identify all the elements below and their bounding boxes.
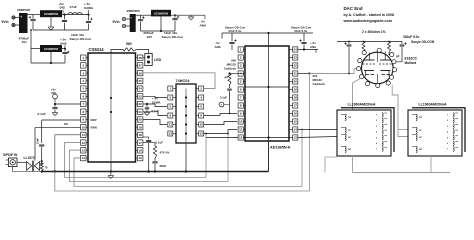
svg-text:E182CC: E182CC [405, 57, 418, 61]
svg-text:LED: LED [154, 58, 162, 62]
svg-text:10: 10 [200, 123, 204, 127]
wire 9V input to bridge [15, 17, 19, 19]
svg-text:0.1uF: 0.1uF [156, 141, 164, 145]
wire regulator ANA output [62, 48, 65, 50]
svg-text:2SBP005: 2SBP005 [17, 8, 31, 12]
wire filter chain upper [148, 137, 150, 139]
AD1865 pin 10 [238, 119, 243, 124]
wire gray cathode rail long vertical [309, 74, 311, 192]
CS8414 pin 3 [81, 70, 86, 75]
transformer T2 secondary windings [453, 113, 454, 118]
tube pin g [389, 75, 393, 79]
wire regulator output rail +5v DIG [62, 14, 89, 16]
wire T1 bottom to gray rail [352, 156, 354, 173]
capacitor C2 10uF [64, 15, 66, 20]
svg-text:14: 14 [294, 128, 298, 132]
wire resistor 470 branch [143, 142, 155, 144]
tube pin 9 [393, 68, 397, 72]
svg-text:0.1uF: 0.1uF [220, 96, 227, 100]
resistor R2 560 [123, 48, 137, 51]
svg-text:ANA: ANA [60, 42, 67, 46]
wire regulator ANA input [31, 48, 40, 50]
CS8414 pin 23 [138, 94, 143, 99]
CS8414 pin 4 [81, 78, 86, 83]
svg-text:ANA: ANA [215, 45, 222, 49]
svg-text:16V: 16V [147, 35, 153, 39]
CS8414 pin 25 [138, 78, 143, 83]
svg-text:16: 16 [294, 112, 298, 116]
wire PSU1 ground bus [33, 29, 89, 31]
svg-text:Caddock: Caddock [224, 67, 237, 71]
74HC04 pin 12 [199, 131, 204, 136]
IC U6 74HC04 body [176, 84, 196, 143]
svg-text:by A. Ciuffoli - started in 2: by A. Ciuffoli - started in 2008 [344, 13, 394, 17]
regulator U4 LD1085V50 negative [151, 10, 171, 17]
AD1865 pin 18 [293, 95, 298, 100]
svg-text:LD1085V50: LD1085V50 [44, 47, 59, 51]
CS8414 pin 27 [138, 63, 143, 68]
svg-text:19: 19 [294, 88, 298, 92]
svg-text:LD1085V50: LD1085V50 [44, 12, 59, 16]
wire B+ rail [337, 41, 402, 43]
transformer T1 body [337, 110, 391, 156]
wire CS8414 internal to ground bus [110, 162, 112, 172]
tube pin 1 [358, 59, 362, 63]
svg-text:13: 13 [82, 149, 86, 153]
AD1865 pin 14 [293, 127, 298, 132]
wire pin14 to transformer T1 [298, 129, 337, 131]
IC U7 AD1865N-K body [245, 46, 289, 141]
AD1865 pin 15 [293, 119, 298, 124]
node +5v DIG [63, 13, 65, 15]
CS8414 pin 8 [81, 109, 86, 114]
svg-text:LL1572: LL1572 [24, 156, 35, 160]
input terminal J1a [12, 16, 15, 19]
wire latch net to pin13 [206, 137, 290, 139]
ground PSU2 [190, 15, 192, 17]
wire pin14 route [74, 158, 302, 187]
wire pin13 route [69, 150, 228, 181]
svg-text:21: 21 [139, 110, 143, 114]
capacitor C8 coupling [39, 144, 44, 146]
74HC04 pin 1 [168, 86, 173, 91]
capacitor C13 47uF left [231, 33, 233, 41]
svg-text:Sanyo OS-Con: Sanyo OS-Con [70, 37, 92, 41]
AD1865 pin 5 [238, 79, 243, 84]
wire connector ground to bus [13, 167, 42, 172]
svg-text:14: 14 [82, 156, 86, 160]
AD1865 pin 20 [293, 79, 298, 84]
tube pin 3 [357, 67, 361, 71]
AD1865 pin 21 [293, 71, 298, 76]
wire ground return loop [55, 172, 310, 192]
AD1865 pin 2 [238, 55, 243, 60]
svg-text:filt: filt [64, 122, 68, 126]
svg-text:SAWA: SAWA [84, 6, 94, 10]
svg-text:LD1085V50: LD1085V50 [154, 12, 169, 16]
node SAWA decoupling [146, 103, 148, 105]
ground PSU1 [48, 26, 54, 28]
74HC04 pin 4 [199, 95, 204, 100]
AD1865 pin 8 [238, 103, 243, 108]
wire pin22 to 74HC04 [143, 104, 167, 107]
CS8414 pin 15 [138, 155, 143, 160]
svg-text:17: 17 [294, 104, 298, 108]
wire AD1865 pin24 supply [298, 49, 318, 51]
wire pin21 to 74HC04 [143, 112, 167, 116]
svg-text:28: 28 [139, 56, 143, 60]
74HC04 pin 6 [199, 104, 204, 109]
svg-text:2SBP005: 2SBP005 [127, 9, 141, 13]
svg-text:10: 10 [82, 125, 86, 129]
wire pin11 route to ground bus [55, 135, 81, 172]
transformer T2 primary windings [416, 114, 417, 121]
tube pin h [376, 83, 380, 87]
AD1865 pin 11 [238, 127, 243, 132]
tube pin k [386, 81, 390, 85]
wire T2 bottom to gray rail [430, 156, 432, 173]
svg-text:CS8414: CS8414 [89, 47, 105, 52]
svg-text:24: 24 [294, 48, 298, 52]
svg-text:LL1660AM/20mA: LL1660AM/20mA [348, 102, 376, 106]
tube pin 4 [360, 75, 364, 79]
wire 74HC04 internal to ground bus [185, 143, 187, 172]
74HC04 pin 3 [168, 95, 173, 100]
AD1865 pin 12 [238, 135, 243, 140]
wire bridge output to regulator [28, 14, 41, 16]
resistor R4 470 1% [153, 146, 156, 158]
wire 9V input 2 to bridge [126, 18, 130, 20]
svg-text:g2: g2 [396, 54, 400, 58]
wire tube to T2 upper [398, 129, 408, 131]
svg-text:10: 10 [239, 120, 243, 124]
CS8414 pin 7 [81, 101, 86, 106]
svg-text:2 x 300ohm 1%: 2 x 300ohm 1% [362, 30, 386, 34]
input terminal J2a [122, 17, 125, 20]
wire CS8414 internal vertical net [110, 53, 112, 162]
svg-text:RXN: RXN [91, 126, 97, 130]
capacitor C9 0.1uF SAWA [146, 104, 148, 107]
svg-text:15: 15 [294, 120, 298, 124]
LED D3 [145, 54, 152, 66]
svg-text:18: 18 [294, 96, 298, 100]
74HC04 pin 10 [199, 122, 204, 127]
wire pin14 bottom route [301, 130, 303, 187]
wire 74HC04 internal net [185, 89, 187, 144]
wire pin20 to 74HC04 [143, 120, 167, 125]
wire PSU ANA ground bus [31, 62, 65, 64]
wire pin23 to 74HC04 [143, 96, 167, 97]
CS8414 pin 26 [138, 70, 143, 75]
CS8414 pin 5 [81, 86, 86, 91]
wire pin4 to g2 resistor [230, 73, 244, 75]
CS8414 pin 19 [138, 125, 143, 130]
AD1865 pin 9 [238, 111, 243, 116]
wire main ground bus [42, 171, 269, 173]
transformer T2 core shadow [412, 108, 465, 152]
svg-text:470 1%: 470 1% [160, 151, 170, 155]
wire 74HC04 bottom route B [227, 134, 229, 182]
svg-text:18: 18 [139, 133, 143, 137]
svg-text:20: 20 [294, 80, 298, 84]
tube right triode grid [379, 63, 392, 65]
svg-text:11: 11 [82, 133, 86, 137]
wire pin10 RXN net [35, 128, 81, 161]
svg-text:LL1660AM/20mA: LL1660AM/20mA [419, 102, 447, 106]
svg-text:SAWA: SAWA [152, 100, 161, 104]
svg-text:DIG: DIG [60, 6, 66, 10]
capacitor C1 4700uF [32, 15, 34, 19]
wire AD1865 top rail [222, 32, 313, 34]
wire gray to tube left pin [310, 69, 357, 74]
CS8414 pin 14 [81, 155, 86, 160]
svg-text:24: 24 [139, 87, 143, 91]
74HC04 pin 8 [199, 113, 204, 118]
CS8414 pin 22 [138, 101, 143, 106]
74HC04 pin 13 [168, 131, 173, 136]
wire AD1865 internal vertical [268, 46, 270, 141]
svg-text:ANA: ANA [200, 24, 207, 28]
regulator U3 LD1085V50 ANA [40, 45, 62, 52]
svg-text:RXP: RXP [91, 118, 97, 122]
tube center shield [376, 52, 378, 62]
74HC04 pin 2 [199, 86, 204, 91]
svg-text:47uF 6.3v: 47uF 6.3v [228, 29, 242, 33]
wire tube cathode right to T2 [392, 85, 408, 137]
svg-text:47uF 6.3v: 47uF 6.3v [294, 29, 308, 33]
capacitor C6 10uF OS-Con negative [174, 15, 176, 17]
AD1865 pin 17 [293, 103, 298, 108]
svg-text:0.1uF: 0.1uF [38, 112, 46, 116]
svg-text:10nF: 10nF [37, 138, 40, 144]
tube V1 E182CC envelope [362, 52, 394, 84]
ground pin7 cluster [52, 112, 58, 114]
regulator U2 LD1085V50 [40, 10, 62, 17]
wire regulator ANA ground lead [50, 52, 52, 63]
svg-text:23: 23 [294, 56, 298, 60]
svg-text:12: 12 [239, 136, 243, 140]
svg-text:21: 21 [294, 72, 298, 76]
svg-text:ANA: ANA [310, 45, 317, 49]
svg-text:Mullard: Mullard [405, 61, 417, 65]
wire transformer gray bottom rail [353, 172, 451, 174]
AD1865 pin 24 [293, 47, 298, 52]
wire transformer to resistor node [40, 163, 42, 165]
bridge rectifier D1 2SBP005 [19, 13, 28, 33]
svg-text:13: 13 [169, 132, 173, 136]
wire 74HC04 bottom route A [205, 134, 207, 178]
wire pin26 master clock route [143, 73, 215, 89]
svg-text:74HC04: 74HC04 [176, 79, 191, 83]
svg-text:22: 22 [139, 102, 143, 106]
svg-text:13: 13 [294, 136, 298, 140]
wire pin21 to anode rail [298, 73, 310, 75]
transformer T1 core shadow [341, 108, 394, 152]
svg-text:330uF 6.3v: 330uF 6.3v [403, 35, 420, 39]
+5v DIG supply circle [53, 94, 58, 99]
svg-text:26: 26 [139, 71, 143, 75]
svg-text:27: 27 [139, 64, 143, 68]
capacitor C10 0.1uF chain [146, 139, 151, 141]
transformer T1 secondary windings [382, 113, 383, 118]
svg-text:11: 11 [169, 123, 173, 127]
wire pin28 to LED [143, 57, 145, 59]
wire tube cathode left to T1 [353, 78, 361, 110]
wire 74HC04 out to AD1865 pin11 [204, 130, 237, 134]
AD1865 pin 3 [238, 63, 243, 68]
transformer T1 primary windings [345, 114, 346, 121]
svg-text:19: 19 [139, 125, 143, 129]
svg-text:+: + [20, 15, 22, 19]
svg-text:Sanyo OS-CON: Sanyo OS-CON [411, 40, 435, 44]
wire 560 resistor net [111, 49, 123, 53]
CS8414 pin 20 [138, 117, 143, 122]
capacitor C7 0.1uF pin7 [54, 104, 56, 107]
wire AD1865 internal horizontal [245, 86, 289, 88]
wire pin13 to transformer T1 [298, 137, 337, 138]
CS8414 pin 2 [81, 63, 86, 68]
CS8414 pin 17 [138, 140, 143, 145]
wire regulator2 ground lead [160, 16, 162, 31]
input terminal J1b [12, 23, 15, 26]
svg-text:16: 16 [139, 149, 143, 153]
74HC04 pin 5 [168, 104, 173, 109]
74HC04 pin 9 [168, 113, 173, 118]
svg-text:17: 17 [139, 141, 143, 145]
transformer T3 LL1572 [27, 162, 32, 171]
wire PSU2 ground bus [141, 30, 176, 32]
CS8414 pin 12 [81, 140, 86, 145]
AD1865 pin 16 [293, 111, 298, 116]
tube right triode cathode [381, 70, 391, 72]
IC U5 CS8414 body [88, 53, 136, 162]
transformer T2 body [408, 110, 462, 156]
wire 74HC04 out to AD1865 pin9 [204, 114, 237, 116]
CS8414 pin 28 [138, 55, 143, 60]
svg-text:Sanyo OS-Con: Sanyo OS-Con [162, 35, 184, 39]
AD1865 pin 22 [293, 63, 298, 68]
tube pin 5 [366, 82, 370, 86]
wire RXP coupling net [41, 120, 43, 143]
tube left triode grid [363, 63, 376, 65]
svg-text:25: 25 [139, 79, 143, 83]
svg-text:AD1865N-K: AD1865N-K [270, 146, 291, 150]
svg-text:DAC End: DAC End [344, 6, 363, 11]
svg-text:9Vin: 9Vin [2, 20, 9, 24]
svg-text:+5v: +5v [51, 88, 56, 92]
svg-text:68nF: 68nF [160, 164, 167, 168]
svg-text:75: 75 [45, 166, 49, 170]
svg-text:+: + [130, 16, 132, 20]
wire bridge negative to PSU2 ground [30, 30, 32, 63]
capacitor C12 0.1uF g2 [227, 88, 231, 90]
svg-text:11: 11 [239, 128, 243, 132]
74HC04 pin 11 [168, 122, 173, 127]
tube pin 8 [390, 53, 394, 57]
wire AD1865 ground leg [268, 141, 270, 172]
capacitor C5 4700uF [140, 15, 142, 18]
tube left triode cathode [364, 70, 374, 72]
AD1865 pin 23 [293, 55, 298, 60]
capacitor C16 330uF right [401, 42, 403, 44]
svg-text:12: 12 [200, 132, 204, 136]
AD1865 pin 6 [238, 87, 243, 92]
resistor R6 300 left [363, 41, 365, 43]
wire connector to transformer [17, 161, 27, 163]
tube pin 2 [362, 51, 366, 55]
CS8414 pin 13 [81, 148, 86, 153]
wire pin9 RXP to coupling [42, 119, 81, 121]
svg-text:23: 23 [139, 95, 143, 99]
svg-text:www.audiodesignguide.com: www.audiodesignguide.com [343, 19, 392, 23]
AD1865 pin 7 [238, 95, 243, 100]
bridge rectifier D2 2SBP005 [130, 14, 136, 32]
wire rail to AD1865 top [268, 33, 270, 46]
wire bridge2 output rail [136, 14, 151, 16]
wire regulator ground lead [50, 17, 52, 27]
CS8414 pin 21 [138, 109, 143, 114]
CS8414 pin 10 [81, 125, 86, 130]
svg-text:560: 560 [126, 42, 132, 46]
wire pin7 to decoupling node [55, 103, 81, 105]
wire 74HC04 out to AD1865 pin10 [204, 122, 237, 125]
svg-text:47uF: 47uF [70, 5, 77, 9]
ground main bus [110, 170, 112, 172]
wire regulator2 output rail [171, 14, 205, 16]
tube left triode anode [364, 59, 375, 61]
ground SAWA [144, 111, 150, 113]
capacitor C11 68nF [152, 161, 157, 163]
svg-text:9Vin: 9Vin [113, 20, 120, 24]
svg-text:16v: 16v [22, 40, 27, 44]
input terminal J2b [122, 24, 125, 27]
capacitor C4 ANA [64, 49, 66, 52]
CS8414 pin 9 [81, 117, 86, 122]
tube pin 7 [392, 60, 396, 64]
node bus dots [41, 170, 43, 172]
svg-text:g2: g2 [224, 75, 228, 79]
AD1865 pin 19 [293, 87, 298, 92]
svg-text:22: 22 [294, 64, 298, 68]
AD1865 pin 4 [238, 71, 243, 76]
svg-text:S/PDIF IN: S/PDIF IN [3, 153, 18, 157]
connector J3 S/PDIF [8, 158, 17, 167]
CS8414 pin 16 [138, 148, 143, 153]
inductor L1 47uH [68, 13, 82, 15]
CS8414 pin 18 [138, 132, 143, 137]
capacitor C3 10uF OS-Con [87, 13, 89, 15]
svg-text:Caddock: Caddock [313, 82, 326, 86]
capacitor C15 330uF left [348, 42, 350, 44]
svg-text:12: 12 [82, 141, 86, 145]
capacitor C14 47uF right [303, 33, 305, 41]
CS8414 pin 1 [81, 55, 86, 60]
AD1865 pin 13 [293, 135, 298, 140]
node +5v ANA [64, 47, 66, 49]
wire resistor to ground bus [41, 161, 43, 163]
wire T1 lower winding stub [325, 157, 337, 173]
svg-text:DIG: DIG [52, 91, 57, 95]
CS8414 pin 24 [138, 86, 143, 91]
CS8414 pin 11 [81, 132, 86, 137]
CS8414 pin 6 [81, 94, 86, 99]
svg-text:20: 20 [139, 118, 143, 122]
resistor R7 300 right [388, 41, 390, 43]
AD1865 pin 1 [238, 47, 243, 52]
+5v DIG circle g2 [219, 102, 224, 107]
resistor R3 75 ohm [40, 163, 43, 172]
tube right triode anode [380, 59, 391, 61]
